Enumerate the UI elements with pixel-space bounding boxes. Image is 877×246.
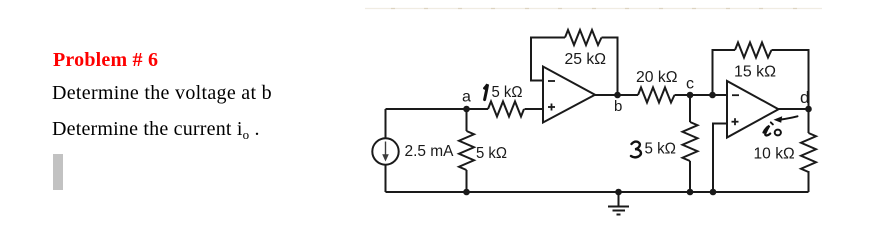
svg-text:b: b — [614, 98, 622, 115]
resistor 15k feedback — [735, 43, 772, 58]
wire: top-left horizontal (source top to resistor) — [386, 108, 489, 110]
junction dot below a — [463, 189, 470, 196]
wire: c to U2 minus input — [675, 94, 728, 96]
svg-text:20 kΩ: 20 kΩ — [636, 69, 678, 86]
handwritten 1 annotation — [485, 84, 488, 99]
wire: U1 minus input stub — [531, 38, 565, 81]
svg-text:15 kΩ: 15 kΩ — [734, 64, 776, 81]
svg-text:5 kΩ: 5 kΩ — [476, 145, 507, 162]
resistor 10k vertical — [808, 109, 810, 133]
wire: feedback right down to b — [602, 38, 618, 96]
wire: bottom ground rail — [386, 191, 809, 193]
resistor 25k feedback — [565, 30, 602, 45]
text line: Determine the voltage at b — [52, 82, 272, 105]
wire: resistor to op-amp + input — [525, 108, 544, 110]
resistor 20k — [638, 88, 675, 103]
ground junction dot — [615, 189, 622, 196]
resistor 5k vertical below c — [689, 95, 691, 122]
svg-text:5 kΩ: 5 kΩ — [492, 84, 523, 101]
handwritten 3 annotation — [631, 142, 641, 158]
wire: left vertical above source — [385, 109, 387, 138]
node d — [805, 106, 812, 113]
svg-text:c: c — [686, 76, 694, 93]
handwritten io arrow — [774, 116, 798, 123]
svg-text:10 kΩ: 10 kΩ — [754, 146, 795, 163]
node b — [614, 92, 621, 99]
svg-text:d: d — [800, 88, 809, 107]
svg-text:2.5 mA: 2.5 mA — [405, 143, 455, 160]
current source I1 — [372, 138, 398, 164]
op-amp U1 minus sign — [548, 80, 555, 82]
current source arrow — [382, 142, 389, 162]
op-amp U1 — [543, 67, 595, 123]
text line: Determine the current io . — [52, 118, 260, 143]
ground — [608, 192, 629, 215]
op-amp U2 plus sign — [732, 118, 739, 125]
op-amp U2 minus sign — [732, 94, 739, 96]
op-amp U2 — [727, 81, 779, 138]
resistor 5k vertical below a — [466, 109, 468, 131]
handwritten io label — [764, 122, 781, 135]
junction dot plus return — [710, 189, 717, 196]
junction dot below c — [687, 189, 694, 196]
junction dot U2 feedback — [709, 92, 716, 99]
svg-text:5 kΩ: 5 kΩ — [645, 141, 677, 158]
svg-text:a: a — [462, 89, 471, 106]
gray cursor bar — [53, 154, 63, 190]
svg-text:25 kΩ: 25 kΩ — [565, 51, 607, 68]
node a — [463, 106, 470, 113]
title Problem # 6 — [53, 49, 158, 72]
wire: U1 output to b — [594, 94, 638, 96]
op-amp U1 plus sign — [548, 104, 555, 111]
faint table border line — [365, 8, 822, 10]
wire: feedback down to d — [772, 50, 809, 109]
wire: U2 output to d — [777, 108, 809, 110]
wire: U2 plus input return to ground rail — [713, 124, 727, 193]
wire: left vertical below source — [385, 165, 387, 192]
wire: U2 feedback up and across — [713, 50, 736, 95]
resistor 5k horizontal (a to op-amp) — [488, 102, 524, 117]
faint border ticks — [391, 8, 797, 10]
node c — [687, 92, 694, 99]
